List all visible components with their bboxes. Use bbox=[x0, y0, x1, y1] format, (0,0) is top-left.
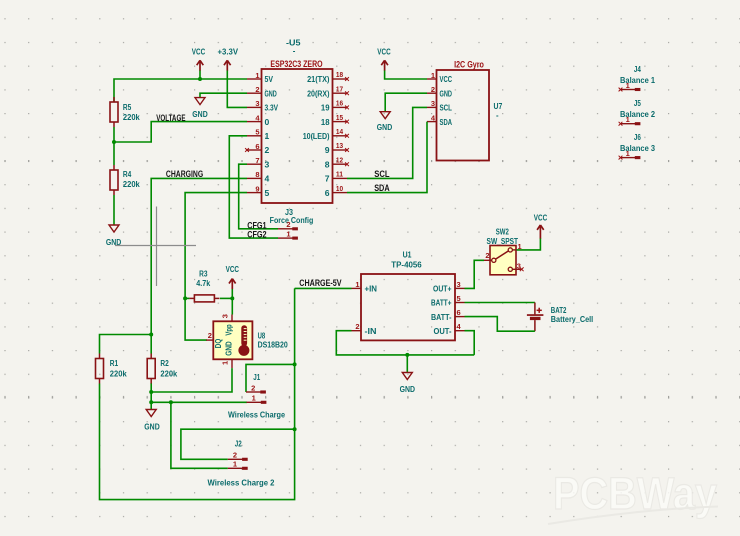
svg-text:3: 3 bbox=[265, 159, 270, 169]
svg-text:OUT-: OUT- bbox=[434, 326, 452, 336]
svg-text:220k: 220k bbox=[123, 113, 141, 122]
svg-text:21(TX): 21(TX) bbox=[307, 74, 330, 84]
svg-text:1: 1 bbox=[626, 115, 630, 124]
svg-text:2: 2 bbox=[208, 331, 212, 340]
svg-text:2: 2 bbox=[355, 322, 359, 331]
svg-text:1: 1 bbox=[233, 460, 237, 469]
svg-text:3: 3 bbox=[517, 261, 521, 270]
svg-text:SDA: SDA bbox=[374, 183, 390, 193]
svg-text:VCC: VCC bbox=[534, 214, 548, 223]
svg-text:220k: 220k bbox=[123, 180, 141, 189]
svg-text:1: 1 bbox=[626, 81, 630, 90]
svg-text:R5: R5 bbox=[123, 103, 132, 112]
svg-text:16: 16 bbox=[336, 99, 343, 108]
svg-text:10: 10 bbox=[336, 184, 343, 193]
svg-text:8: 8 bbox=[325, 159, 330, 169]
svg-text:BATT-: BATT- bbox=[431, 312, 452, 322]
svg-text:12: 12 bbox=[336, 155, 343, 164]
svg-text:TP-4056: TP-4056 bbox=[391, 261, 422, 270]
svg-text:SW2: SW2 bbox=[496, 227, 510, 236]
svg-text:5: 5 bbox=[255, 128, 259, 137]
svg-text:2: 2 bbox=[265, 145, 270, 155]
svg-text:GND: GND bbox=[440, 88, 453, 98]
svg-text:1: 1 bbox=[255, 71, 259, 80]
svg-text:4: 4 bbox=[265, 174, 270, 184]
svg-text:Battery_Cell: Battery_Cell bbox=[551, 315, 593, 324]
svg-text:GND: GND bbox=[144, 423, 160, 432]
svg-text:Vpp: Vpp bbox=[225, 324, 234, 335]
svg-text:5V: 5V bbox=[265, 74, 274, 84]
svg-text:J4: J4 bbox=[634, 65, 642, 74]
svg-text:6: 6 bbox=[325, 188, 330, 198]
svg-text:CHARGE-5V: CHARGE-5V bbox=[299, 278, 341, 288]
svg-text:VCC: VCC bbox=[192, 48, 206, 57]
svg-text:2: 2 bbox=[485, 251, 489, 260]
svg-text:CHARGING: CHARGING bbox=[166, 169, 203, 179]
svg-text:6: 6 bbox=[255, 142, 259, 151]
svg-text:220k: 220k bbox=[160, 369, 178, 378]
svg-text:GND: GND bbox=[377, 123, 393, 132]
svg-text:6: 6 bbox=[457, 308, 461, 317]
svg-text:11: 11 bbox=[336, 170, 343, 179]
svg-text:2: 2 bbox=[431, 85, 435, 94]
svg-text:0: 0 bbox=[265, 117, 270, 127]
svg-text:18: 18 bbox=[336, 70, 343, 79]
svg-text:7: 7 bbox=[255, 156, 259, 165]
svg-text:+3.3V: +3.3V bbox=[218, 48, 239, 57]
svg-text:3.3V: 3.3V bbox=[265, 103, 279, 113]
svg-text:4.7k: 4.7k bbox=[196, 279, 211, 288]
svg-text:SW_SPST: SW_SPST bbox=[487, 237, 519, 246]
svg-text:GND: GND bbox=[225, 341, 234, 356]
svg-text:SCL: SCL bbox=[440, 103, 453, 113]
svg-text:J6: J6 bbox=[634, 133, 642, 142]
svg-text:2: 2 bbox=[255, 85, 259, 94]
svg-text:8: 8 bbox=[255, 170, 259, 179]
svg-text:1: 1 bbox=[355, 280, 359, 289]
svg-text:9: 9 bbox=[255, 184, 259, 193]
svg-text:1: 1 bbox=[431, 71, 435, 80]
svg-text:14: 14 bbox=[336, 127, 344, 136]
svg-text:1: 1 bbox=[626, 149, 630, 158]
svg-text:17: 17 bbox=[336, 84, 343, 93]
svg-text:R4: R4 bbox=[123, 170, 132, 179]
svg-text:Force Config: Force Config bbox=[270, 216, 314, 225]
svg-text:220k: 220k bbox=[110, 369, 128, 378]
svg-text:18: 18 bbox=[321, 117, 330, 127]
svg-text:1: 1 bbox=[252, 394, 256, 403]
svg-text:BATT+: BATT+ bbox=[431, 298, 452, 308]
svg-text:GND: GND bbox=[192, 110, 208, 119]
svg-text:SCL: SCL bbox=[374, 169, 390, 179]
svg-text:J2: J2 bbox=[235, 440, 243, 449]
svg-text:GND: GND bbox=[400, 385, 416, 394]
svg-text:1: 1 bbox=[220, 361, 229, 365]
svg-text:7: 7 bbox=[325, 174, 330, 184]
svg-text:J5: J5 bbox=[634, 99, 642, 108]
svg-text:DQ: DQ bbox=[214, 339, 223, 349]
svg-text:3: 3 bbox=[457, 280, 461, 289]
svg-text:2: 2 bbox=[286, 220, 290, 229]
svg-text:GND: GND bbox=[265, 88, 277, 98]
svg-text:Wireless Charge 2: Wireless Charge 2 bbox=[208, 478, 276, 487]
svg-text:5: 5 bbox=[457, 294, 461, 303]
svg-text:I2C Gyro: I2C Gyro bbox=[454, 59, 484, 69]
svg-text:3: 3 bbox=[431, 99, 435, 108]
svg-text:10(LED): 10(LED) bbox=[303, 131, 330, 141]
svg-text:U1: U1 bbox=[403, 251, 412, 260]
svg-text:U8: U8 bbox=[258, 331, 266, 340]
svg-text:VCC: VCC bbox=[440, 74, 453, 84]
svg-text:1: 1 bbox=[286, 230, 290, 239]
svg-text:2: 2 bbox=[233, 451, 237, 460]
svg-text:R1: R1 bbox=[110, 359, 119, 368]
svg-text:-: - bbox=[293, 47, 296, 56]
svg-text:13: 13 bbox=[336, 141, 343, 150]
svg-text:R2: R2 bbox=[160, 359, 169, 368]
svg-text:3: 3 bbox=[255, 99, 259, 108]
svg-text:1: 1 bbox=[265, 131, 270, 141]
svg-text:DS18B20: DS18B20 bbox=[258, 340, 289, 349]
svg-text:20(RX): 20(RX) bbox=[307, 88, 330, 98]
svg-text:-IN: -IN bbox=[365, 326, 377, 336]
svg-text:+IN: +IN bbox=[365, 284, 378, 294]
svg-text:-: - bbox=[496, 111, 499, 120]
svg-text:BAT2: BAT2 bbox=[551, 306, 567, 315]
svg-text:2: 2 bbox=[251, 383, 255, 392]
svg-text:15: 15 bbox=[336, 113, 343, 122]
svg-text:R3: R3 bbox=[199, 270, 208, 279]
svg-text:VCC: VCC bbox=[377, 48, 391, 57]
svg-text:ESP32C3 ZERO: ESP32C3 ZERO bbox=[270, 59, 322, 69]
svg-text:19: 19 bbox=[321, 103, 330, 113]
svg-text:5: 5 bbox=[265, 188, 270, 198]
svg-text:CFG2: CFG2 bbox=[247, 230, 266, 240]
svg-text:Wireless Charge: Wireless Charge bbox=[228, 411, 286, 420]
svg-text:J1: J1 bbox=[253, 373, 261, 382]
svg-text:VCC: VCC bbox=[226, 265, 240, 274]
svg-text:SDA: SDA bbox=[440, 117, 453, 127]
svg-text:OUT+: OUT+ bbox=[433, 284, 452, 294]
svg-text:3: 3 bbox=[220, 314, 229, 318]
svg-text:VOLTAGE: VOLTAGE bbox=[156, 113, 185, 123]
svg-text:9: 9 bbox=[325, 145, 330, 155]
